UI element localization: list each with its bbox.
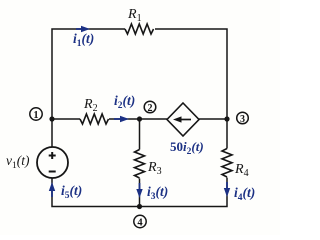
wire node2 to diamond — [140, 118, 168, 120]
junction dot node 2 — [137, 116, 142, 121]
wire node2 down to R3 — [139, 119, 141, 150]
wire R3 to node 4 — [139, 179, 141, 207]
svg-text:50i2(t): 50i2(t) — [170, 139, 204, 157]
current arrow i2 — [114, 116, 129, 122]
node 2 circled label — [144, 101, 156, 113]
voltage source v1 circle — [37, 147, 68, 178]
node 4 circled label — [134, 215, 146, 227]
svg-text:R3: R3 — [147, 160, 162, 177]
svg-text:v1(t): v1(t) — [6, 153, 30, 171]
svg-text:R1: R1 — [127, 7, 142, 24]
svg-text:i4(t): i4(t) — [234, 185, 255, 203]
dependent source internal arrow — [173, 116, 191, 122]
current arrow i5 — [49, 182, 55, 197]
node 3 circled label — [237, 112, 249, 124]
wire R2 to node 2 — [109, 118, 140, 120]
svg-text:R2: R2 — [83, 97, 98, 114]
svg-text:4: 4 — [137, 218, 143, 229]
wire bottom left — [52, 178, 140, 207]
wire R4 to bottom corner — [140, 178, 228, 207]
svg-text:i5(t): i5(t) — [61, 183, 82, 201]
resistor R2 — [80, 114, 109, 124]
voltage source plus sign — [49, 152, 56, 159]
dependent current source 50i2(t) diamond — [167, 103, 199, 136]
resistor R1 — [125, 24, 154, 34]
svg-text:i3(t): i3(t) — [147, 184, 168, 202]
junction dot node 4 — [137, 204, 142, 209]
svg-text:i2(t): i2(t) — [114, 93, 135, 111]
voltage source minus sign — [49, 171, 56, 173]
svg-text:1: 1 — [33, 110, 38, 121]
wire diamond to node 3 — [199, 118, 227, 120]
junction dot node 1 — [49, 116, 54, 121]
current arrow i4 — [224, 182, 230, 197]
current arrow i1 — [76, 26, 90, 32]
wire top from left corner to R1 — [52, 29, 125, 119]
wire node1 to R2 — [52, 118, 80, 120]
svg-text:R4: R4 — [234, 162, 249, 179]
current arrow i3 — [136, 183, 142, 198]
junction dot node 3 — [224, 116, 229, 121]
svg-text:3: 3 — [240, 114, 245, 125]
wire top right + right side down to node 3 — [155, 29, 227, 119]
node 1 circled label — [30, 108, 42, 120]
resistor R3 — [135, 150, 145, 179]
resistor R4 — [222, 149, 232, 178]
svg-text:i1(t): i1(t) — [73, 31, 94, 49]
wire node1 down to source — [51, 119, 53, 147]
svg-text:2: 2 — [148, 103, 153, 114]
wire node3 down to R4 — [226, 119, 228, 149]
